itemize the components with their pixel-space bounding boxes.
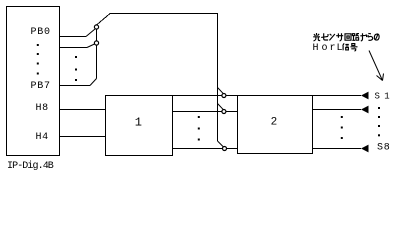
input triangle S2 <box>361 106 369 114</box>
wire H4 <box>60 136 106 138</box>
input triangle S1 <box>361 92 369 100</box>
svg-text:r: r <box>330 43 336 54</box>
label shingou (pixel art) <box>343 43 358 51</box>
svg-text:H4: H4 <box>36 132 49 143</box>
contact arm 1 <box>218 88 224 94</box>
ellipsis dots box1-box2 <box>198 116 200 118</box>
wire bus vertical <box>96 29 98 79</box>
ellipsis dots PB labels <box>37 44 39 46</box>
svg-text:H8: H8 <box>36 103 49 114</box>
svg-text:PB7: PB7 <box>31 81 51 92</box>
wire box1 to box2 top <box>173 95 238 97</box>
wire PB0 diagonal <box>86 29 95 37</box>
svg-text:2: 2 <box>271 116 278 128</box>
svg-text:L: L <box>337 43 343 54</box>
svg-text:H: H <box>313 43 319 54</box>
node PB0 junction <box>94 25 98 29</box>
svg-text:S: S <box>375 92 380 102</box>
contact node 2 <box>222 110 226 114</box>
svg-text:1: 1 <box>384 92 389 102</box>
wire bus top link <box>97 14 218 142</box>
wire PB1 diagonal <box>87 44 95 48</box>
wire PB1 <box>60 47 87 49</box>
wire PB0 <box>60 36 86 38</box>
label hikari sensor kairo kara no (pixel art) <box>313 33 379 41</box>
wire PB7 diagonal <box>90 79 97 86</box>
box 2 <box>238 96 313 154</box>
wire box2 to S8 <box>313 148 362 150</box>
contact arm 3 <box>218 141 224 147</box>
ellipsis dots PB bus <box>75 56 77 58</box>
contact node 1 <box>222 94 226 98</box>
wire box2 to S1 <box>313 95 362 97</box>
wire box1 to box2 bottom <box>173 148 238 150</box>
wire box2 to S2 <box>313 109 362 111</box>
svg-text:IP-Dig.4B: IP-Dig.4B <box>7 160 54 172</box>
contact arm 2 <box>218 104 224 110</box>
ellipsis dots S column <box>378 107 380 109</box>
svg-text:S8: S8 <box>377 143 391 154</box>
wire H8 <box>60 109 106 111</box>
wire PB7 <box>60 85 90 87</box>
svg-text:PB0: PB0 <box>31 27 51 38</box>
ellipsis dots right of box2 <box>341 116 343 118</box>
svg-text:o: o <box>322 43 328 54</box>
annotation arrow <box>369 51 384 81</box>
svg-text:1: 1 <box>135 116 142 130</box>
wire box1 to box2 middle <box>173 111 238 113</box>
I/O board box IP-Dig.4B <box>7 7 60 156</box>
node PB1 junction <box>94 41 98 45</box>
contact node 3 <box>223 147 227 151</box>
input triangle S8 <box>361 145 369 153</box>
box 1 <box>106 96 173 156</box>
